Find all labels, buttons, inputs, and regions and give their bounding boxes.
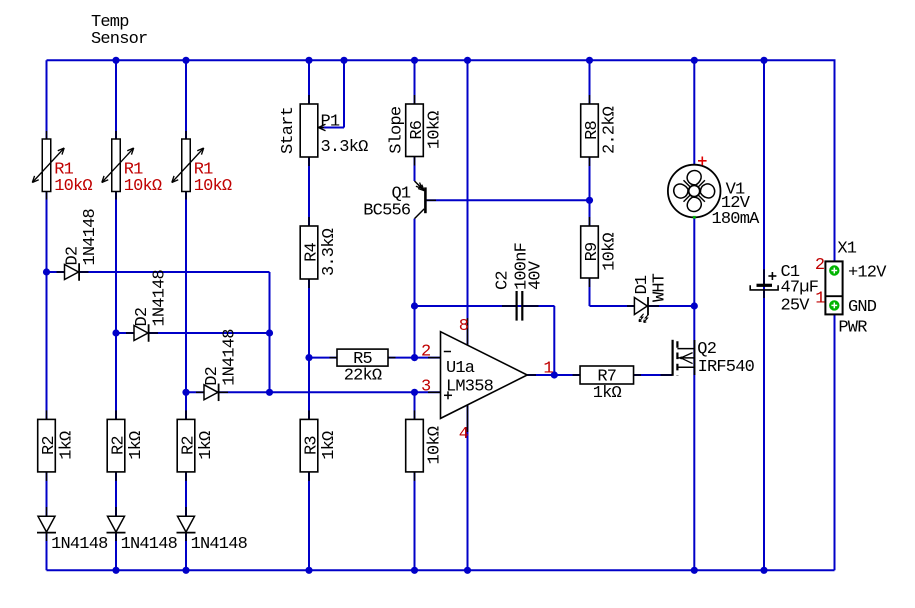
svg-text:2: 2 [815, 256, 824, 275]
svg-text:PWR: PWR [838, 318, 867, 337]
svg-text:1N4148: 1N4148 [51, 535, 108, 554]
svg-text:47µF: 47µF [781, 279, 819, 298]
svg-text:1N4148: 1N4148 [221, 329, 240, 386]
svg-text:D2: D2 [133, 308, 152, 327]
svg-text:GND: GND [848, 298, 877, 317]
svg-text:4: 4 [459, 425, 469, 444]
svg-text:10kΩ: 10kΩ [426, 426, 445, 464]
svg-text:Q2: Q2 [697, 340, 716, 359]
svg-text:LM358: LM358 [446, 378, 494, 397]
svg-text:1kΩ: 1kΩ [320, 431, 339, 460]
svg-text:1kΩ: 1kΩ [127, 431, 146, 460]
svg-text:8: 8 [459, 317, 469, 336]
svg-text:Temp: Temp [91, 13, 129, 32]
svg-text:Start: Start [279, 107, 298, 154]
svg-text:10kΩ: 10kΩ [194, 177, 232, 196]
svg-text:R2: R2 [110, 436, 129, 455]
svg-text:1kΩ: 1kΩ [197, 431, 216, 460]
svg-text:WHT: WHT [651, 273, 670, 302]
svg-text:X1: X1 [837, 240, 856, 259]
svg-text:C2: C2 [493, 271, 512, 290]
svg-text:1N4148: 1N4148 [81, 208, 100, 265]
svg-text:3.3kΩ: 3.3kΩ [321, 138, 369, 157]
svg-text:1: 1 [815, 289, 825, 308]
svg-text:25V: 25V [781, 297, 811, 316]
svg-text:10kΩ: 10kΩ [54, 177, 92, 196]
svg-text:BC556: BC556 [363, 202, 411, 221]
svg-text:1N4148: 1N4148 [121, 535, 178, 554]
svg-text:22kΩ: 22kΩ [344, 367, 382, 386]
svg-text:2.2kΩ: 2.2kΩ [601, 106, 620, 154]
svg-text:D1: D1 [633, 275, 652, 294]
svg-text:D2: D2 [63, 247, 82, 266]
svg-text:2: 2 [421, 343, 430, 362]
svg-text:R9: R9 [583, 242, 602, 261]
svg-text:10kΩ: 10kΩ [426, 111, 445, 149]
svg-text:R2: R2 [180, 436, 199, 455]
svg-text:+12V: +12V [848, 263, 887, 282]
svg-text:R6: R6 [408, 120, 427, 139]
svg-text:Q1: Q1 [391, 184, 410, 203]
svg-text:U1a: U1a [446, 359, 475, 378]
svg-text:IRF540: IRF540 [698, 358, 755, 377]
svg-text:Slope: Slope [388, 106, 407, 154]
svg-text:R8: R8 [583, 121, 602, 140]
svg-text:1N4148: 1N4148 [191, 535, 248, 554]
svg-text:R3: R3 [303, 436, 322, 455]
svg-text:40V: 40V [526, 260, 545, 290]
svg-text:R2: R2 [40, 436, 59, 455]
svg-text:1kΩ: 1kΩ [58, 431, 77, 460]
svg-text:Sensor: Sensor [91, 30, 147, 49]
svg-text:1: 1 [543, 360, 553, 379]
svg-text:3.3kΩ: 3.3kΩ [320, 228, 339, 276]
svg-text:3: 3 [421, 377, 431, 396]
svg-text:D2: D2 [203, 367, 222, 386]
svg-text:1kΩ: 1kΩ [593, 384, 622, 403]
svg-text:10kΩ: 10kΩ [601, 233, 620, 271]
svg-text:1N4148: 1N4148 [151, 269, 170, 326]
svg-text:R4: R4 [303, 243, 322, 262]
svg-text:10kΩ: 10kΩ [124, 177, 162, 196]
svg-text:180mA: 180mA [711, 210, 760, 229]
svg-text:P1: P1 [321, 113, 340, 132]
